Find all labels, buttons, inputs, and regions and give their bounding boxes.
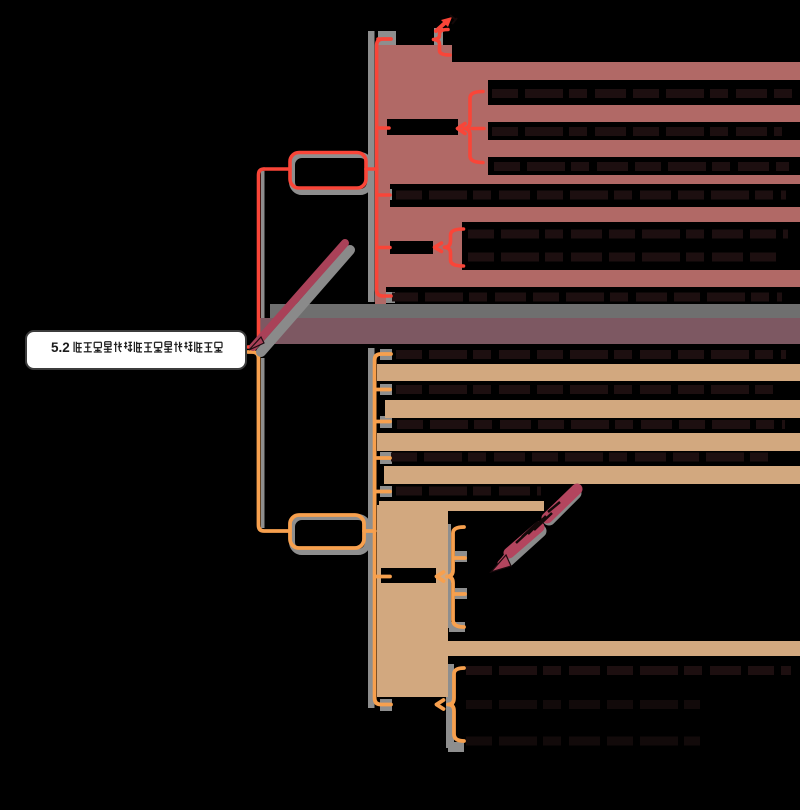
trunk with top and bottom corners bbox=[377, 39, 391, 296]
brace2 cusp arrow bbox=[458, 124, 466, 134]
B1 cusp arrow bbox=[437, 572, 444, 581]
orange box to trunk bbox=[364, 529, 375, 533]
brace B1 bbox=[447, 527, 464, 627]
B2 cusp arrow bbox=[437, 700, 444, 709]
grey halo: orange trunk bar bbox=[368, 348, 375, 708]
grey halo: red branch4 tick bbox=[380, 242, 392, 253]
B1 middle ticks bbox=[455, 556, 465, 560]
annotation 2: arrowhead bottom-left bbox=[491, 555, 511, 572]
annotation 3: small red arrow top bbox=[436, 22, 446, 31]
grey halo: orange brace B1 bbox=[443, 524, 451, 628]
annotation 1: arrowhead at root bbox=[249, 337, 264, 350]
branch4 tick bbox=[378, 246, 390, 250]
grey halo: red branch3 tick bbox=[380, 189, 392, 200]
red box right connector bbox=[366, 167, 377, 171]
grey halo: orange brace B2 bbox=[446, 664, 454, 748]
muted band between branch3 and branch4 bbox=[375, 207, 800, 225]
mauve band bbox=[258, 318, 800, 344]
brace B2 bbox=[448, 668, 464, 741]
red vertical from root bbox=[248, 169, 264, 347]
grey halo: orange branch ticks bbox=[380, 349, 392, 360]
annotation 1: grey shadow bbox=[261, 250, 350, 352]
grey halo: red vertical connector (right side) bbox=[261, 171, 265, 344]
muted block main bbox=[375, 45, 800, 184]
grey halo: brace2 arms bbox=[477, 121, 490, 133]
grey halo: orange vertical connector (right side) bbox=[261, 358, 265, 528]
annotation 2: grey shadow bbox=[508, 493, 575, 560]
black gaps carved in muted block bbox=[387, 20, 800, 270]
branch3 tick bbox=[378, 193, 390, 197]
branch1 line to brace1 bbox=[378, 37, 391, 41]
brace4 bbox=[445, 229, 464, 266]
grey halo: orange box bbox=[292, 517, 368, 552]
brace1 bbox=[434, 30, 451, 56]
grey halo: brace1 bbox=[434, 28, 443, 59]
grey band above mauve bbox=[270, 304, 800, 318]
grey halo: red branch2 tick bbox=[380, 122, 392, 133]
grey halo: red trunk top tick bbox=[378, 31, 396, 46]
grey halo: red box bbox=[292, 155, 370, 192]
red box left connector bbox=[264, 167, 290, 171]
svg-text:5.2: 5.2 bbox=[51, 340, 70, 355]
root node bbox=[25, 330, 247, 370]
grey halo: red branch5 tick bbox=[380, 292, 395, 303]
red box bbox=[290, 153, 366, 189]
grey halo: red trunk bar bbox=[368, 31, 375, 302]
muted left strip at branch5 bbox=[375, 287, 386, 304]
muted left col strip at branch3 row bbox=[375, 184, 390, 207]
orange trunk bbox=[375, 354, 391, 705]
brace2 middle tick bbox=[472, 127, 484, 131]
annotation 2: crimson strokes bbox=[547, 489, 577, 518]
orange branch ticks bbox=[376, 388, 390, 392]
muted band below branch4 children bbox=[375, 270, 800, 287]
annotation 2: black scribbles bbox=[516, 502, 560, 543]
annotation 1: crimson stroke bbox=[253, 243, 345, 347]
brace2 bbox=[464, 92, 484, 163]
branch2 tick bbox=[378, 126, 389, 130]
orange box bbox=[290, 515, 364, 548]
brace4 cusp arrow bbox=[435, 243, 442, 252]
muted left col at branch4 bbox=[375, 225, 462, 270]
orange vertical from root bbox=[248, 352, 290, 531]
